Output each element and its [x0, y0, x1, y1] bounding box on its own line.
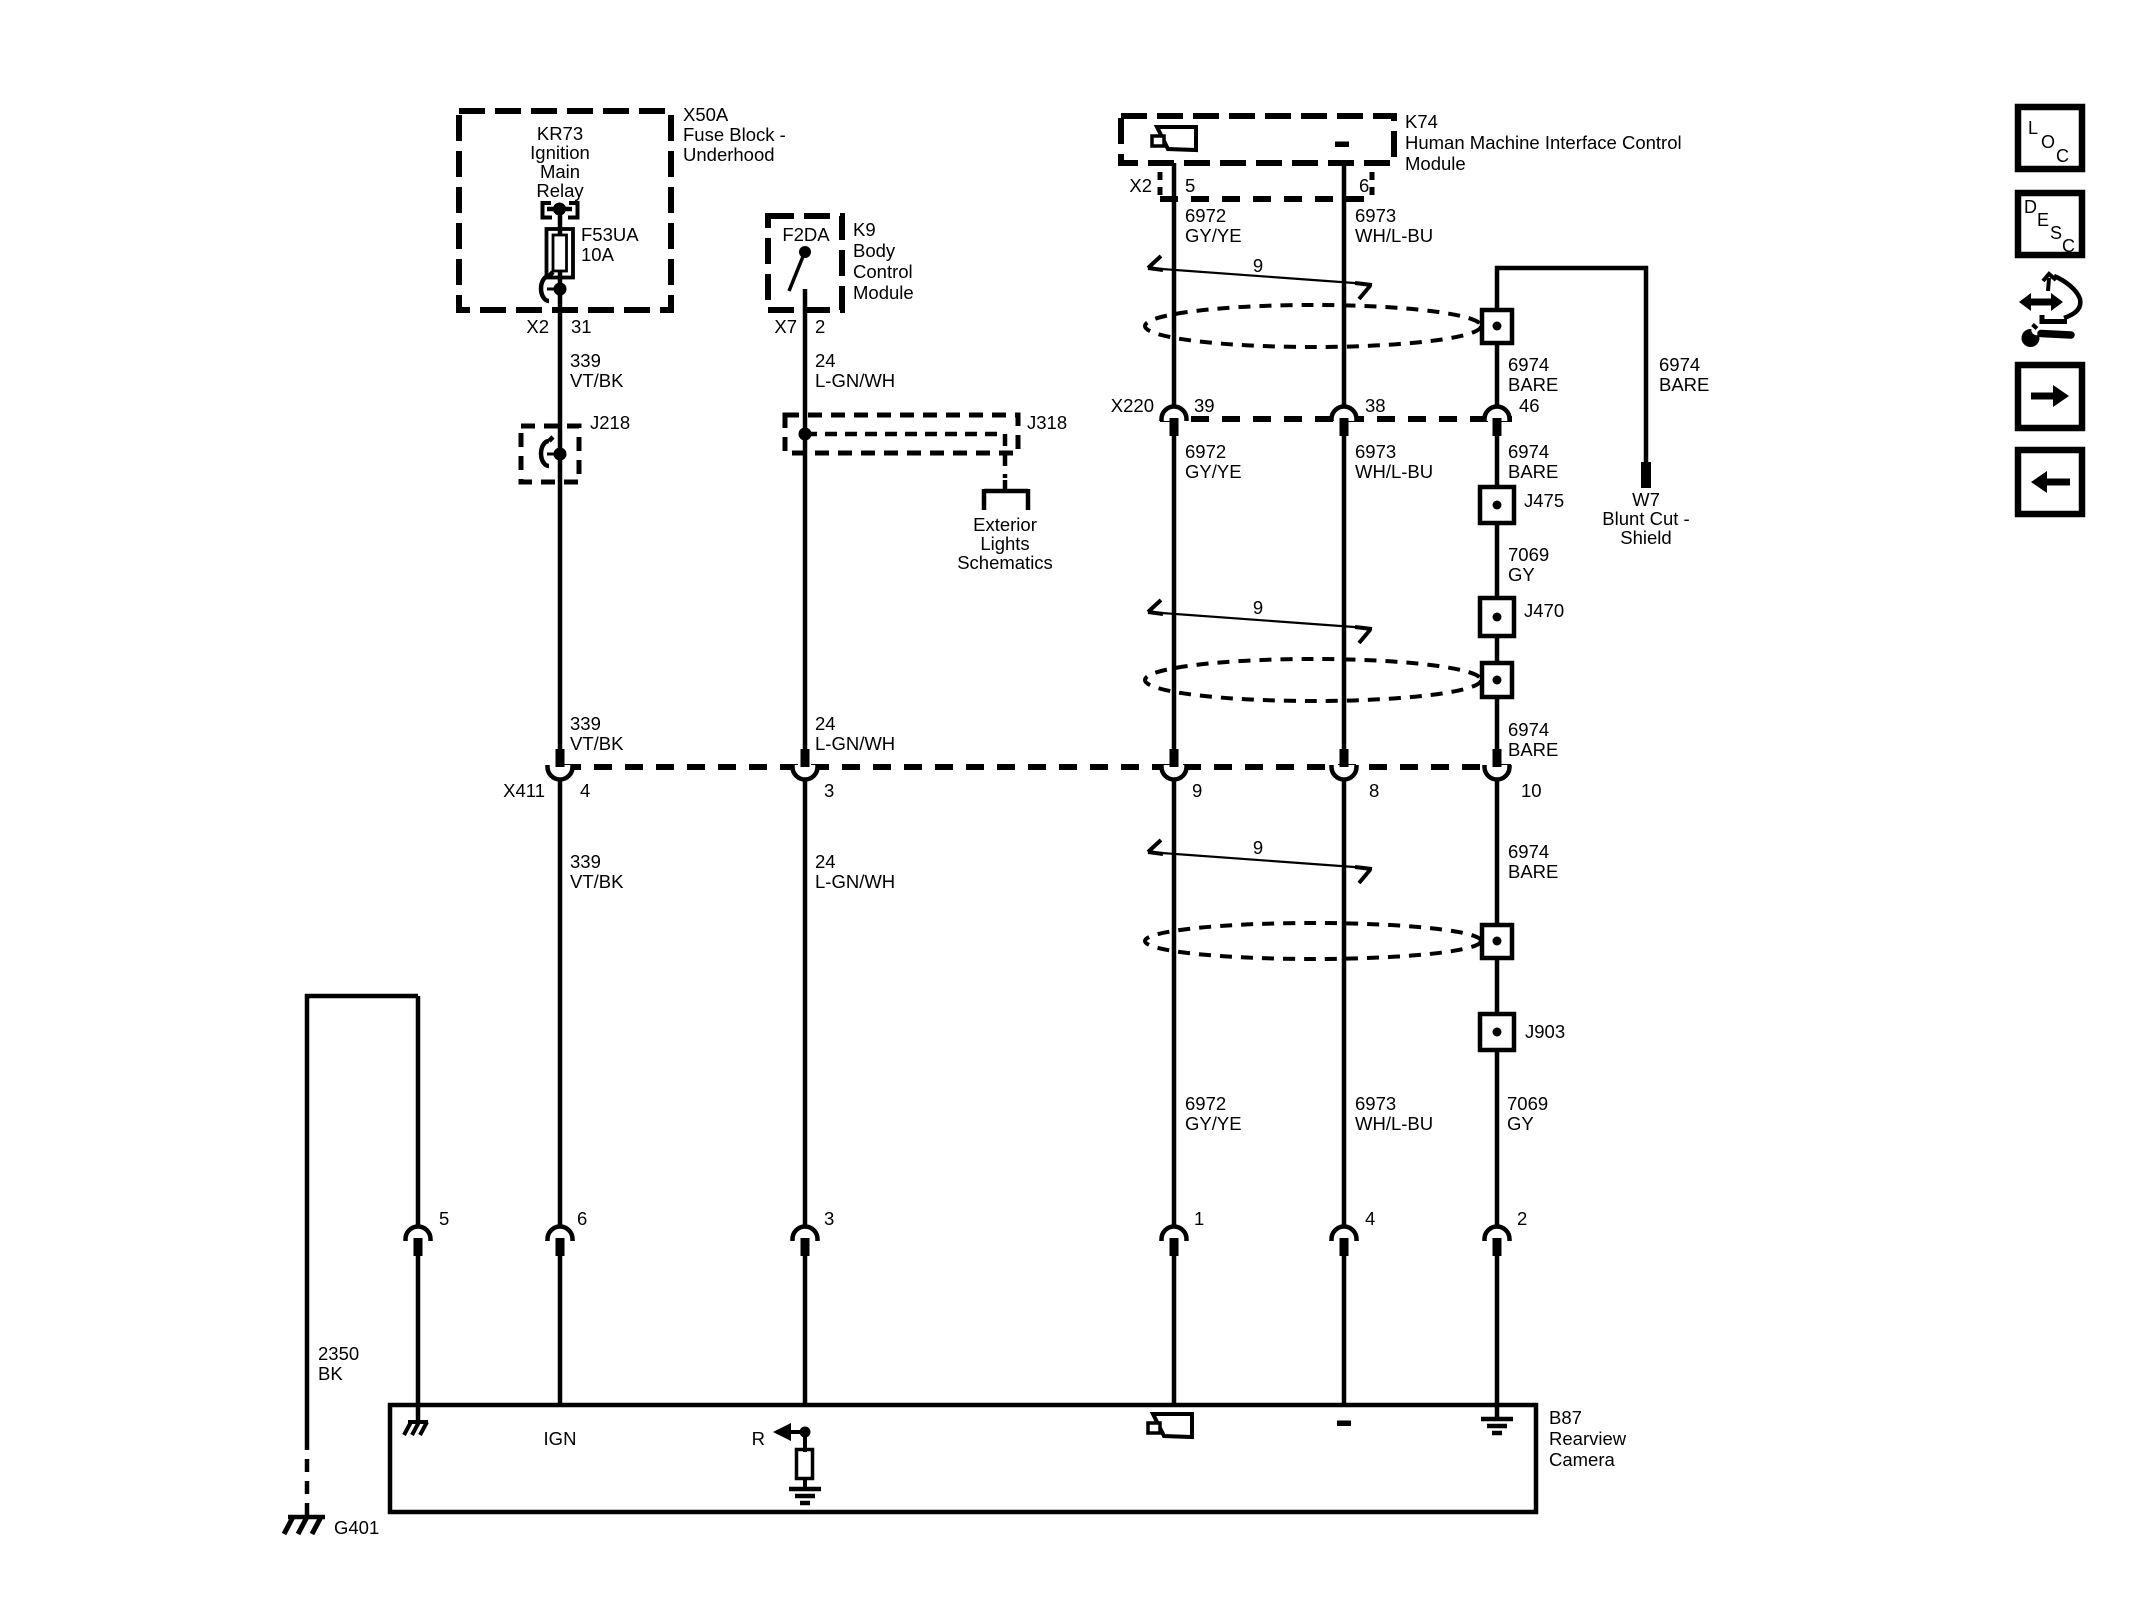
wire label 6972 GY/YE (top)	[1185, 205, 1242, 246]
icon connector repair (arrows and wrench)	[2019, 274, 2080, 347]
svg-text:5: 5	[439, 1208, 449, 1229]
icon DESC	[2018, 193, 2082, 256]
svg-text:R: R	[752, 1428, 765, 1449]
wire camera pin 3 into module	[803, 1256, 808, 1407]
svg-text:46: 46	[1519, 395, 1540, 416]
wire camera pin5 up to loop	[416, 996, 421, 1227]
svg-text:6973: 6973	[1355, 1093, 1396, 1114]
ground G401 symbol	[284, 1503, 325, 1534]
svg-text:Main: Main	[540, 161, 580, 182]
svg-text:4: 4	[1365, 1208, 1375, 1229]
svg-text:Exterior: Exterior	[973, 514, 1037, 535]
svg-text:L-GN/WH: L-GN/WH	[815, 733, 895, 754]
connector X2 pin 31 labels	[526, 316, 591, 337]
svg-text:Human Machine Interface Contro: Human Machine Interface Control	[1405, 132, 1682, 153]
svg-text:2: 2	[815, 316, 825, 337]
svg-text:GY/YE: GY/YE	[1185, 461, 1242, 482]
svg-text:24: 24	[815, 851, 836, 872]
svg-text:39: 39	[1194, 395, 1215, 416]
wire 6973 X220 to X411	[1342, 436, 1347, 750]
wire 6973 X411 to camera pin 4	[1342, 779, 1347, 1227]
camera icon inside K74	[1157, 127, 1196, 150]
svg-text:Lights: Lights	[980, 533, 1029, 554]
svg-text:GY/YE: GY/YE	[1185, 1113, 1242, 1134]
svg-text:6974: 6974	[1508, 841, 1549, 862]
wire 2350 BK dashed section	[305, 1437, 310, 1503]
wire camera pin 5 into module	[416, 1256, 421, 1407]
twisted pair marker 9 (top)	[1148, 268, 1368, 284]
wire K9 output X7-2	[803, 289, 808, 750]
svg-text:6974: 6974	[1508, 354, 1549, 375]
wire shield drain top corner	[1497, 268, 1646, 462]
svg-text:6972: 6972	[1185, 205, 1226, 226]
svg-text:J218: J218	[590, 412, 630, 433]
twisted pair marker 9 (middle)	[1148, 612, 1368, 628]
R input with arrow inside camera	[752, 1423, 811, 1449]
svg-text:6973: 6973	[1355, 441, 1396, 462]
svg-text:C: C	[2062, 236, 2075, 256]
svg-text:K74: K74	[1405, 111, 1438, 132]
label B87 Rearview Camera	[1549, 1407, 1627, 1470]
svg-text:J318: J318	[1027, 412, 1067, 433]
svg-text:Module: Module	[853, 282, 914, 303]
svg-text:GY: GY	[1508, 564, 1535, 585]
wire label 6972 GY/YE (middle)	[1185, 441, 1242, 482]
wire 6972 X411 to camera pin 1	[1172, 779, 1177, 1227]
terminal camera pin 4	[1332, 1227, 1357, 1242]
svg-text:X220: X220	[1111, 395, 1154, 416]
connector X2 of K74 (dashed)	[1160, 172, 1372, 199]
splice J475	[1480, 487, 1514, 523]
J318 branch wire (dashed)	[805, 434, 1005, 478]
terminal camera pin 5	[406, 1227, 431, 1242]
terminal X220-38	[1332, 407, 1357, 422]
svg-text:G401: G401	[334, 1517, 379, 1538]
terminal clip below fuse	[541, 272, 553, 301]
earth ground below resistor inside camera	[789, 1487, 821, 1492]
svg-text:6974: 6974	[1508, 441, 1549, 462]
wire 6974 J470 to shield box 2	[1495, 636, 1500, 665]
wire camera pin 6 into module	[558, 1256, 563, 1407]
svg-text:X411: X411	[503, 780, 545, 801]
terminal camera pin 6	[548, 1227, 573, 1242]
svg-text:C: C	[2056, 146, 2069, 166]
wire 6973 from K74 X2-6	[1342, 163, 1347, 406]
twisted pair marker 9 (bottom)	[1148, 852, 1368, 868]
svg-text:31: 31	[571, 316, 592, 337]
svg-text:B87: B87	[1549, 1407, 1582, 1428]
svg-text:10: 10	[1521, 780, 1542, 801]
wire relay to fuse	[558, 209, 563, 236]
svg-text:GY: GY	[1507, 1113, 1534, 1134]
wire label 6974 BARE (below X411)	[1508, 841, 1558, 882]
terminal X411-10	[1485, 765, 1510, 779]
wire 6974 between shield box and X220	[1495, 343, 1500, 406]
splice J218 (dashed box)	[521, 426, 579, 482]
wire 24 X411 to camera pin 3	[803, 779, 808, 1227]
wire label 6972 GY/YE (bottom)	[1185, 1093, 1242, 1134]
svg-text:10A: 10A	[581, 244, 615, 265]
svg-text:4: 4	[580, 780, 590, 801]
svg-text:BARE: BARE	[1508, 374, 1558, 395]
svg-text:6972: 6972	[1185, 441, 1226, 462]
splice J470	[1480, 598, 1514, 636]
module K9 Body Control Module (dashed box)	[768, 216, 842, 310]
svg-text:6973: 6973	[1355, 205, 1396, 226]
svg-text:BARE: BARE	[1508, 739, 1558, 760]
wire label 24 L-GN/WH (upper)	[815, 350, 895, 391]
svg-text:9: 9	[1192, 780, 1202, 801]
svg-text:BARE: BARE	[1659, 374, 1709, 395]
label Exterior Lights Schematics	[957, 514, 1053, 573]
svg-text:Underhood: Underhood	[683, 144, 775, 165]
svg-text:3: 3	[824, 780, 834, 801]
wire 6974 shield box 3 to J903	[1495, 958, 1500, 1016]
wire label 6974 BARE (middle)	[1508, 441, 1558, 482]
svg-text:7069: 7069	[1508, 544, 1549, 565]
svg-text:GY/YE: GY/YE	[1185, 225, 1242, 246]
relay KR73 contact symbol	[543, 203, 578, 218]
wire label 6974 BARE (left of W7)	[1508, 354, 1558, 395]
labels camera pins 5 6 3 1 4 2	[439, 1208, 1527, 1229]
earth ground inside camera (pin 2)	[1495, 1404, 1500, 1419]
svg-text:6974: 6974	[1508, 719, 1549, 740]
svg-text:339: 339	[570, 350, 601, 371]
svg-text:L: L	[2028, 118, 2038, 138]
module X50A Fuse Block - Underhood (dashed box)	[459, 111, 671, 310]
wire label 6973 WH/L-BU (middle)	[1355, 441, 1433, 482]
wire label 6973 WH/L-BU (bottom)	[1355, 1093, 1433, 1134]
svg-text:J475: J475	[1524, 490, 1564, 511]
svg-text:Blunt Cut -: Blunt Cut -	[1602, 508, 1689, 529]
svg-text:Relay: Relay	[536, 180, 584, 201]
svg-text:F2DA: F2DA	[782, 224, 830, 245]
label K74 Human Machine Interface Control Module	[1405, 111, 1682, 174]
svg-text:339: 339	[570, 713, 601, 734]
wire camera pin 1 into module	[1172, 1256, 1177, 1407]
svg-text:6: 6	[1359, 175, 1369, 196]
switch F2DA inside K9	[789, 246, 811, 291]
wire 6972 from K74 X2-5	[1172, 163, 1177, 406]
svg-text:L-GN/WH: L-GN/WH	[815, 370, 895, 391]
wire 7069 J475 to J470	[1495, 523, 1500, 600]
svg-text:7069: 7069	[1507, 1093, 1548, 1114]
module K74 Human Machine Interface Control Module (dashed box)	[1121, 116, 1394, 163]
svg-text:VT/BK: VT/BK	[570, 733, 624, 754]
wire label 2350 BK	[318, 1343, 359, 1384]
svg-text:9: 9	[1253, 597, 1263, 618]
chassis ground inside camera (pin 5)	[416, 1406, 421, 1422]
svg-text:S: S	[2050, 223, 2062, 243]
svg-text:D: D	[2024, 197, 2037, 217]
icon previous page (left arrow)	[2018, 450, 2082, 514]
off-page connector to Exterior Lights Schematics	[984, 480, 1028, 510]
svg-text:X2: X2	[1129, 175, 1152, 196]
svg-text:IGN: IGN	[544, 1428, 577, 1449]
labels X2 pins 5 and 6	[1129, 175, 1369, 196]
label K9 Body Control Module	[853, 219, 914, 303]
svg-text:2350: 2350	[318, 1343, 359, 1364]
svg-text:WH/L-BU: WH/L-BU	[1355, 1113, 1433, 1134]
wire label 6974 BARE (below middle shield box)	[1508, 719, 1558, 760]
svg-text:Ignition: Ignition	[530, 142, 590, 163]
svg-text:2: 2	[1517, 1208, 1527, 1229]
shield termination box (bottom) with ellipse	[1145, 923, 1481, 959]
camera icon inside B87	[1153, 1414, 1192, 1437]
connector X411 (dashed line)	[563, 764, 1512, 770]
minus sign inside B87	[1337, 1421, 1351, 1427]
wire label 24 L-GN/WH (below X411)	[815, 851, 895, 892]
wire 7069 J903 to camera pin 2	[1495, 1050, 1500, 1227]
svg-text:339: 339	[570, 851, 601, 872]
svg-text:Camera: Camera	[1549, 1449, 1616, 1470]
svg-text:24: 24	[815, 713, 836, 734]
svg-text:Body: Body	[853, 240, 896, 261]
connector X220 (dashed line)	[1160, 416, 1512, 422]
wire fuse to terminal clip	[558, 271, 563, 296]
wire camera pin 4 into module	[1342, 1256, 1347, 1407]
wire 6974 X220 to J475	[1495, 436, 1500, 490]
wire fuse block output X2-31	[558, 289, 563, 750]
svg-text:X2: X2	[526, 316, 549, 337]
terminal X220-46	[1485, 407, 1510, 422]
wire camera pin 2 into module	[1495, 1256, 1500, 1407]
svg-text:E: E	[2037, 210, 2049, 230]
terminal camera pin 1	[1162, 1227, 1187, 1242]
labels X411 pins 4 3 9 8 10	[503, 780, 1541, 801]
wire 6974 X411 to shield box 3	[1495, 779, 1500, 927]
terminal camera pin 3	[793, 1227, 818, 1242]
svg-text:5: 5	[1185, 175, 1195, 196]
svg-text:BARE: BARE	[1508, 861, 1558, 882]
wire label 339 VT/BK (above X411)	[570, 713, 624, 754]
svg-text:O: O	[2041, 132, 2055, 152]
svg-text:VT/BK: VT/BK	[570, 871, 624, 892]
svg-text:Shield: Shield	[1620, 527, 1671, 548]
terminal X411-9	[1162, 765, 1187, 779]
wire label 339 VT/BK (upper)	[570, 350, 624, 391]
shield termination box (middle) with ellipse	[1145, 659, 1481, 701]
wire 6974 shield box 2 to X411	[1495, 697, 1500, 750]
svg-text:BARE: BARE	[1508, 461, 1558, 482]
svg-text:3: 3	[824, 1208, 834, 1229]
svg-text:Module: Module	[1405, 153, 1466, 174]
svg-text:X50A: X50A	[683, 104, 729, 125]
wire 6972 X220 to X411	[1172, 436, 1177, 750]
svg-text:X7: X7	[774, 316, 797, 337]
terminal camera pin 2	[1485, 1227, 1510, 1242]
svg-text:Schematics: Schematics	[957, 552, 1053, 573]
connector X7 pin 2 labels	[774, 316, 825, 337]
svg-text:L-GN/WH: L-GN/WH	[815, 871, 895, 892]
terminal X220-39	[1162, 407, 1187, 422]
svg-text:8: 8	[1369, 780, 1379, 801]
svg-text:WH/L-BU: WH/L-BU	[1355, 225, 1433, 246]
svg-text:W7: W7	[1632, 489, 1660, 510]
svg-text:9: 9	[1253, 837, 1263, 858]
wire label 24 L-GN/WH (above X411)	[815, 713, 895, 754]
svg-text:Control: Control	[853, 261, 913, 282]
svg-text:6: 6	[577, 1208, 587, 1229]
svg-text:Rearview: Rearview	[1549, 1428, 1627, 1449]
module B87 Rearview Camera (box)	[390, 1405, 1536, 1512]
svg-text:J470: J470	[1524, 600, 1564, 621]
minus sign inside K74	[1335, 142, 1349, 148]
icon LOC	[2018, 107, 2082, 169]
fuse F53UA 10A	[547, 224, 640, 278]
svg-text:38: 38	[1365, 395, 1386, 416]
icon next page (right arrow)	[2018, 365, 2082, 428]
blunt cut W7 blade	[1641, 462, 1651, 488]
terminal X411-4	[548, 765, 573, 779]
shield termination box (top) with ellipse	[1145, 305, 1481, 347]
svg-text:24: 24	[815, 350, 836, 371]
wire 2350 BK ground loop	[307, 996, 418, 1437]
wire label 7069 GY (bottom)	[1507, 1093, 1548, 1134]
terminal X411-8	[1332, 765, 1357, 779]
svg-text:K9: K9	[853, 219, 876, 240]
svg-text:BK: BK	[318, 1363, 343, 1384]
svg-text:9: 9	[1253, 255, 1263, 276]
svg-text:KR73: KR73	[537, 123, 583, 144]
label KR73 Ignition Main Relay	[530, 123, 590, 201]
resistor inside camera	[797, 1432, 813, 1490]
terminal X411-3	[793, 765, 818, 779]
svg-text:6972: 6972	[1185, 1093, 1226, 1114]
label W7 Blunt Cut - Shield	[1602, 489, 1689, 548]
junction dot J318 on wire 24	[799, 428, 812, 441]
wire label 6973 WH/L-BU (top)	[1355, 205, 1433, 246]
svg-text:F53UA: F53UA	[581, 224, 639, 245]
wire label 339 VT/BK (below X411)	[570, 851, 624, 892]
svg-text:WH/L-BU: WH/L-BU	[1355, 461, 1433, 482]
splice J318 (dashed box)	[785, 415, 1018, 453]
labels X220 pins 39 38 46	[1111, 395, 1540, 416]
svg-text:VT/BK: VT/BK	[570, 370, 624, 391]
wire label 6974 BARE (W7 branch)	[1659, 354, 1709, 395]
terminal clip J218	[541, 437, 553, 466]
svg-text:6974: 6974	[1659, 354, 1700, 375]
svg-text:J903: J903	[1525, 1021, 1565, 1042]
wire label 7069 GY (upper)	[1508, 544, 1549, 585]
svg-text:Fuse Block -: Fuse Block -	[683, 124, 786, 145]
wire 339 X411 to camera pin 6	[558, 779, 563, 1227]
svg-text:1: 1	[1194, 1208, 1204, 1229]
label X50A Fuse Block - Underhood	[683, 104, 786, 165]
splice J903	[1480, 1014, 1514, 1050]
